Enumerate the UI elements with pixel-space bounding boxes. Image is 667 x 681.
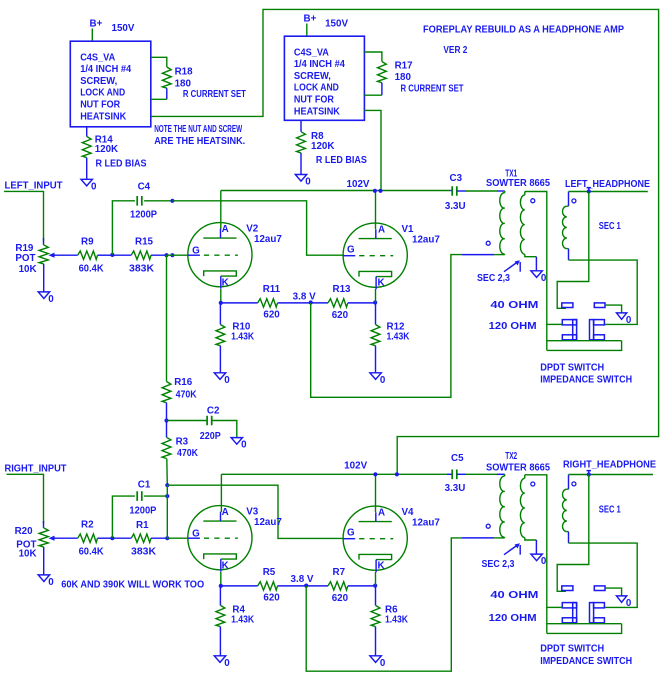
svg-text:HEATSINK: HEATSINK xyxy=(294,106,340,117)
capacitor C3 3.3U xyxy=(445,173,505,212)
wire: 3.8V node to TX1 primary return xyxy=(311,255,462,398)
ground under C2 xyxy=(231,438,247,451)
svg-text:R15: R15 xyxy=(135,237,154,248)
svg-text:RIGHT_INPUT: RIGHT_INPUT xyxy=(5,464,67,475)
svg-text:0: 0 xyxy=(48,577,54,588)
svg-text:A: A xyxy=(378,224,385,235)
junction rail/V4 plate xyxy=(373,472,377,476)
svg-text:10K: 10K xyxy=(19,264,37,275)
heatsink note box U-right (C4S_VA) xyxy=(284,36,364,120)
svg-text:120 OHM: 120 OHM xyxy=(489,613,537,624)
svg-text:C4: C4 xyxy=(138,182,151,193)
resistor R18 180 (R CURRENT SET) with bracket wires xyxy=(151,57,246,100)
resistor R2 60.4K xyxy=(78,520,113,558)
TX2 SEC 1 winding xyxy=(562,475,568,544)
ground under R10 xyxy=(214,373,230,386)
svg-text:R5: R5 xyxy=(263,567,276,578)
TX2 primary phase dot xyxy=(486,524,490,528)
wire: right C4S output down to left-channel 102V rail xyxy=(364,110,381,190)
label SEC 2,3 with pointer arrow xyxy=(477,260,520,284)
wire: throw B to ground (right) xyxy=(605,588,622,596)
TX2 SEC1 phase dot xyxy=(572,482,576,486)
ground DPDT switch 2 xyxy=(617,596,632,609)
wire: right 3.8V node to TX2 primary return xyxy=(306,538,462,671)
DPDT switch 1 throw contact B xyxy=(594,303,605,308)
wire: V3 cathode to junction xyxy=(220,572,222,586)
svg-text:120K: 120K xyxy=(311,141,334,152)
wire: left headphone net xyxy=(569,191,648,193)
svg-text:G: G xyxy=(347,527,355,538)
svg-text:SEC 2,3: SEC 2,3 xyxy=(477,273,510,284)
svg-text:383K: 383K xyxy=(131,547,156,558)
resistor R3 470K xyxy=(162,421,198,486)
TX1 primary winding xyxy=(500,191,505,255)
svg-text:A: A xyxy=(222,224,229,235)
svg-text:120 OHM: 120 OHM xyxy=(489,321,537,332)
label SEC 2,3 with pointer arrow (right) xyxy=(482,543,521,570)
svg-text:A: A xyxy=(378,507,385,518)
TX1 SEC1 phase dot xyxy=(572,199,576,203)
svg-text:R CURRENT SET: R CURRENT SET xyxy=(183,89,246,100)
wire: V4 plate lead from rail xyxy=(375,474,377,512)
DPDT switch 1 pole 1 contacts xyxy=(562,320,576,340)
TX1 sec2,3 phase dot xyxy=(531,199,535,203)
TX1 primary phase dot xyxy=(486,241,490,245)
svg-text:R LED BIAS: R LED BIAS xyxy=(96,158,147,169)
wire: headphone junction down to DPDT throw 1 xyxy=(557,192,589,309)
svg-text:R17: R17 xyxy=(395,60,414,71)
junction V2 cathode xyxy=(219,301,223,305)
resistor R1 383K xyxy=(112,520,167,558)
triode V4 12au7 xyxy=(343,506,440,572)
svg-text:1.43K: 1.43K xyxy=(231,615,254,626)
svg-text:R18: R18 xyxy=(175,67,194,78)
ground TX1 sec 2,3 xyxy=(531,271,547,284)
svg-text:LOCK AND: LOCK AND xyxy=(80,88,125,99)
svg-text:TX2: TX2 xyxy=(505,451,517,462)
TX2 sec2,3 phase dot xyxy=(531,482,535,486)
svg-text:IMPEDANCE SWITCH: IMPEDANCE SWITCH xyxy=(540,656,632,667)
resistor R6 1.43K xyxy=(371,586,408,656)
junction R1/grid xyxy=(165,536,169,540)
resistor R8 120K (R LED BIAS) xyxy=(297,120,368,174)
svg-text:3.3U: 3.3U xyxy=(445,483,466,494)
svg-text:NOTE THE NUT AND SCREW: NOTE THE NUT AND SCREW xyxy=(154,124,242,135)
svg-text:V1: V1 xyxy=(402,224,415,235)
resistor R14 120K (R LED BIAS) xyxy=(82,127,147,180)
triode V3 12au7 xyxy=(188,506,283,572)
wire: V2 K to R11 xyxy=(221,302,258,304)
svg-text:R9: R9 xyxy=(81,237,94,248)
svg-text:SEC 2,3: SEC 2,3 xyxy=(482,559,515,570)
ground under R4 xyxy=(214,656,230,669)
wire: grid link V3 to V4 grid xyxy=(167,485,343,538)
svg-text:R CURRENT SET: R CURRENT SET xyxy=(401,84,464,95)
svg-text:NUT FOR: NUT FOR xyxy=(294,95,334,106)
resistor R17 180 (R CURRENT SET) with bracket wires xyxy=(364,52,463,95)
svg-text:LOCK AND: LOCK AND xyxy=(294,83,339,94)
svg-text:40 OHM: 40 OHM xyxy=(490,300,538,311)
svg-text:R13: R13 xyxy=(333,284,352,295)
wire: TX1 sec2,3 top to DPDT pole 1 xyxy=(525,192,547,351)
svg-text:R16: R16 xyxy=(174,377,193,388)
junction grid-link right xyxy=(165,483,169,487)
wire: pole 1 feed (right) xyxy=(547,606,563,608)
junction V3 cathode xyxy=(219,584,223,588)
ground under R14 xyxy=(81,179,97,192)
svg-text:C2: C2 xyxy=(207,405,220,416)
wire: TX2 SEC1 bottom to DPDT pole 2 (right) xyxy=(569,543,638,607)
svg-text:1200P: 1200P xyxy=(129,505,156,516)
triode V1 12au7 xyxy=(343,223,440,289)
svg-text:1.43K: 1.43K xyxy=(385,615,408,626)
wire: TX2 sec2,3 top to DPDT pole 1 xyxy=(525,475,547,634)
capacitor C5 3.3U xyxy=(445,453,505,494)
svg-text:C3: C3 xyxy=(450,173,463,184)
wire: DPDT common bar switch 1 xyxy=(547,340,622,342)
svg-text:10K: 10K xyxy=(19,549,37,560)
svg-text:0: 0 xyxy=(541,556,547,567)
node 3.8 V (right) xyxy=(304,584,308,588)
svg-text:SEC 1: SEC 1 xyxy=(599,221,621,232)
ground TX2 sec 2,3 xyxy=(531,554,547,567)
junction V4 cathode xyxy=(373,584,377,588)
svg-text:V4: V4 xyxy=(402,507,415,518)
junction C1 right xyxy=(165,494,169,498)
wire: right headphone net xyxy=(569,474,654,476)
resistor R4 1.43K xyxy=(216,586,254,656)
resistor R13 620 xyxy=(311,284,376,321)
svg-text:A: A xyxy=(222,507,229,518)
svg-text:3.3U: 3.3U xyxy=(445,201,466,212)
svg-text:620: 620 xyxy=(263,593,280,604)
svg-text:R1: R1 xyxy=(136,520,149,531)
capacitor C4 1200P with stub wires xyxy=(112,182,172,255)
svg-text:1.43K: 1.43K xyxy=(231,332,254,343)
svg-text:DPDT SWITCH: DPDT SWITCH xyxy=(540,643,604,654)
svg-text:60.4K: 60.4K xyxy=(79,547,104,558)
svg-text:NUT FOR: NUT FOR xyxy=(80,100,120,111)
junction R9/R15/C4 xyxy=(110,253,114,257)
TX1 SEC 1 winding xyxy=(563,192,569,261)
ground under R6 xyxy=(370,656,386,669)
ground under R12 xyxy=(370,373,386,386)
junction grid stub xyxy=(170,253,174,257)
wire: throw B to ground xyxy=(605,305,622,313)
svg-text:0: 0 xyxy=(541,273,547,284)
svg-text:150V: 150V xyxy=(112,23,135,34)
svg-text:G: G xyxy=(192,246,200,257)
wire: R19 wiper to R9 xyxy=(57,254,78,256)
capacitor C1 1200P with stub wires xyxy=(112,479,167,538)
svg-text:1200P: 1200P xyxy=(130,210,157,221)
wire: right input to pot R20 xyxy=(7,474,44,523)
svg-text:K: K xyxy=(378,561,385,572)
wire: DPDT common bar switch 2 xyxy=(547,623,622,625)
svg-text:LEFT_INPUT: LEFT_INPUT xyxy=(5,180,63,191)
svg-text:0: 0 xyxy=(380,658,386,669)
svg-text:K: K xyxy=(222,278,229,289)
svg-text:RIGHT_HEADPHONE: RIGHT_HEADPHONE xyxy=(563,459,656,470)
svg-text:150V: 150V xyxy=(325,18,348,29)
svg-text:SOWTER 8665: SOWTER 8665 xyxy=(486,178,551,189)
wire: grid node down to R16 xyxy=(166,255,168,381)
svg-text:C4S_VA: C4S_VA xyxy=(294,47,329,58)
svg-text:POT: POT xyxy=(15,253,35,264)
svg-text:40 OHM: 40 OHM xyxy=(490,590,538,601)
svg-text:180: 180 xyxy=(395,72,412,83)
junction rail/current-source feed xyxy=(378,189,382,193)
svg-text:470K: 470K xyxy=(177,448,198,459)
wire: left input to pot R19 xyxy=(4,191,44,240)
svg-text:0: 0 xyxy=(91,181,97,192)
svg-text:0: 0 xyxy=(380,375,386,386)
svg-text:R LED BIAS: R LED BIAS xyxy=(316,155,367,166)
svg-text:0: 0 xyxy=(48,294,54,305)
svg-text:102V: 102V xyxy=(347,179,370,190)
svg-text:0: 0 xyxy=(224,375,230,386)
wire: left C4S output via top rail to right-channel 102V feed xyxy=(151,9,659,474)
wire: V4 cathode to junction xyxy=(375,572,377,586)
wire: V1 plate lead from rail xyxy=(375,191,377,230)
wire: grid link V2 to V1 grid xyxy=(172,201,343,255)
svg-text:1.43K: 1.43K xyxy=(387,332,410,343)
DPDT switch 2 throw contact A xyxy=(562,586,573,591)
svg-text:180: 180 xyxy=(175,78,192,89)
svg-text:B+: B+ xyxy=(90,19,103,30)
junction left headphone with tick xyxy=(587,188,591,192)
svg-text:B+: B+ xyxy=(304,14,317,25)
svg-text:C1: C1 xyxy=(138,479,151,490)
svg-text:R2: R2 xyxy=(81,520,94,531)
resistor R7 620 xyxy=(306,567,375,604)
svg-text:0: 0 xyxy=(224,658,230,669)
svg-text:620: 620 xyxy=(263,310,280,321)
junction rail/B+ feed right xyxy=(395,472,399,476)
heatsink note box U-left (C4S_VA) xyxy=(70,41,151,127)
junction R16/R3/C2 xyxy=(164,418,168,422)
svg-text:12au7: 12au7 xyxy=(254,517,282,528)
resistor R15 383K xyxy=(112,237,166,275)
svg-text:K: K xyxy=(222,561,229,572)
svg-text:620: 620 xyxy=(332,593,349,604)
potentiometer R20 POT 10K xyxy=(15,521,57,575)
note text: heatsink note xyxy=(154,124,245,147)
wire: headphone junction down to DPDT throw 1 (right) xyxy=(557,475,589,592)
svg-text:12au7: 12au7 xyxy=(412,517,440,528)
DPDT switch 2 pole 1 contacts xyxy=(562,603,576,623)
svg-text:60.4K: 60.4K xyxy=(79,264,104,275)
TX1 secondary 2,3 winding xyxy=(520,192,536,271)
junction right headphone with tick xyxy=(587,471,591,475)
svg-text:0: 0 xyxy=(626,598,632,609)
svg-text:60K AND 390K WILL WORK TOO: 60K AND 390K WILL WORK TOO xyxy=(61,580,204,591)
triode V2 12au7 xyxy=(188,223,283,289)
wire: V2 cathode to junction xyxy=(220,289,222,303)
junction V1 cathode xyxy=(373,300,377,304)
ground under R19 xyxy=(38,292,54,305)
capacitor C2 220P xyxy=(167,405,237,442)
svg-text:1/4 INCH #4: 1/4 INCH #4 xyxy=(294,59,346,70)
wire: R20 wiper to R2 xyxy=(57,537,78,539)
svg-text:ARE THE HEATSINK.: ARE THE HEATSINK. xyxy=(154,136,245,147)
DPDT switch 2 throw contact B xyxy=(594,586,605,591)
resistor R9 60.4K xyxy=(78,237,113,275)
ground DPDT switch 1 xyxy=(617,313,632,326)
resistor R5 620 xyxy=(258,567,307,603)
svg-text:G: G xyxy=(347,244,355,255)
svg-text:1/4 INCH #4: 1/4 INCH #4 xyxy=(80,64,132,75)
svg-text:220P: 220P xyxy=(200,431,221,442)
wire: V3 plate lead from rail xyxy=(220,474,222,512)
wire: grid node to V2 grid xyxy=(167,254,191,256)
DPDT switch 1 throw contact A xyxy=(562,303,573,308)
wire: SEC1 bottom to DPDT pole 2 xyxy=(569,260,638,324)
svg-text:VER 2: VER 2 xyxy=(443,45,467,56)
svg-text:G: G xyxy=(192,529,200,540)
svg-text:0: 0 xyxy=(305,177,311,188)
svg-text:120K: 120K xyxy=(95,144,118,155)
DPDT switch 2 pole 2 contacts xyxy=(590,603,605,623)
svg-text:C4S_VA: C4S_VA xyxy=(80,52,115,63)
junction R15/R16 xyxy=(164,253,168,257)
wire: 102V rail (right channel) xyxy=(221,473,447,475)
ground under R8 xyxy=(295,175,311,188)
wire: V3 K to R5 xyxy=(221,585,258,587)
node 3.8 V (left) xyxy=(309,300,313,304)
svg-text:R20: R20 xyxy=(15,526,34,537)
junction R2/R1/C1 xyxy=(110,536,114,540)
wire: R3 bottom through grid junctions to V3 grid xyxy=(167,485,190,538)
svg-text:R3: R3 xyxy=(176,437,189,448)
svg-text:470K: 470K xyxy=(176,390,197,401)
resistor R10 1.43K xyxy=(216,303,254,373)
svg-text:3.8 V: 3.8 V xyxy=(291,574,314,585)
svg-text:IMPEDANCE SWITCH: IMPEDANCE SWITCH xyxy=(540,374,632,385)
svg-text:C5: C5 xyxy=(451,453,464,464)
svg-text:SOWTER 8665: SOWTER 8665 xyxy=(486,463,551,474)
svg-text:FOREPLAY REBUILD AS A HEADPHON: FOREPLAY REBUILD AS A HEADPHONE AMP xyxy=(423,25,624,36)
svg-text:620: 620 xyxy=(332,310,349,321)
wire: 102V rail (left channel) xyxy=(221,190,450,192)
DPDT switch 1 pole 2 contacts xyxy=(590,320,605,340)
power symbol B+ (left supply) xyxy=(90,19,103,42)
svg-text:K: K xyxy=(378,278,385,289)
svg-text:0: 0 xyxy=(626,315,632,326)
svg-text:LEFT_HEADPHONE: LEFT_HEADPHONE xyxy=(565,179,650,190)
svg-text:383K: 383K xyxy=(129,264,154,275)
svg-text:12au7: 12au7 xyxy=(254,234,282,245)
junction C4 right / grid-link xyxy=(170,199,174,203)
svg-text:SEC 1: SEC 1 xyxy=(599,505,621,516)
svg-text:102V: 102V xyxy=(344,461,367,472)
svg-text:HEATSINK: HEATSINK xyxy=(80,111,126,122)
wire: V2 plate lead from rail xyxy=(220,191,222,230)
wire: V1 cathode to junction xyxy=(375,289,377,303)
svg-text:DPDT SWITCH: DPDT SWITCH xyxy=(540,362,604,373)
svg-text:R11: R11 xyxy=(263,284,281,295)
svg-text:0: 0 xyxy=(241,440,247,451)
power symbol B+ (right supply) xyxy=(304,14,317,37)
TX2 primary winding xyxy=(500,474,505,538)
svg-text:12au7: 12au7 xyxy=(412,234,440,245)
resistor R12 1.43K xyxy=(371,303,409,373)
wire: pole 1 feed xyxy=(547,323,563,325)
ground under R20 xyxy=(38,575,54,588)
svg-text:SCREW,: SCREW, xyxy=(294,71,331,82)
resistor R11 620 xyxy=(258,284,311,320)
potentiometer R19 POT 10K xyxy=(15,238,56,292)
svg-text:3.8 V: 3.8 V xyxy=(293,292,316,303)
svg-text:R7: R7 xyxy=(333,567,346,578)
svg-text:SCREW,: SCREW, xyxy=(80,76,117,87)
TX2 secondary 2,3 winding xyxy=(520,475,536,554)
junction rail/V1 plate xyxy=(373,189,377,193)
resistor R16 470K xyxy=(162,377,197,421)
